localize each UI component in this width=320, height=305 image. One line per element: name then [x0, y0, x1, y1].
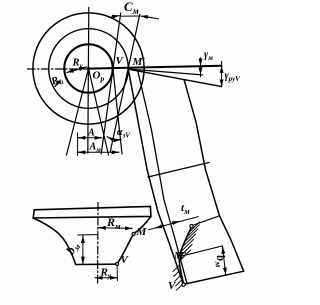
- b_m extension line: [78, 234, 98, 236]
- ray from V down: [113, 68, 122, 154]
- radial ray down-left: [67, 69, 89, 156]
- profile M point: [132, 232, 135, 235]
- gamma_pyV dimension ticks: [221, 61, 223, 87]
- thick horizontal radius line through V and M': [89, 66, 222, 69]
- svg-text:M′: M′: [173, 250, 187, 262]
- svg-text:A: A: [87, 128, 95, 139]
- hatch strokes lower: [173, 265, 184, 291]
- outer circle: [33, 13, 144, 124]
- radial ray down-right: [89, 69, 109, 156]
- A_m dimension: [78, 151, 84, 153]
- tooth path start point: [190, 225, 193, 228]
- radius arrow R_y: [67, 67, 87, 73]
- svg-text:V: V: [121, 254, 130, 266]
- V point on band: [182, 283, 185, 286]
- band strip line: [138, 71, 187, 284]
- V extension line down: [116, 266, 118, 281]
- band transverse line 2: [192, 216, 220, 226]
- band transverse line 1: [148, 163, 209, 178]
- svg-text:tм: tм: [181, 202, 190, 216]
- svg-text:V: V: [116, 55, 125, 67]
- M' tilted line (C_m right line): [110, 14, 140, 152]
- b_m dimension line in band: [223, 246, 226, 275]
- svg-text:Oр: Oр: [93, 70, 105, 84]
- vertical centerline: [88, 8, 89, 154]
- profile view: top bar: [33, 206, 151, 218]
- band left edge: [128, 69, 183, 284]
- C_m dimension: [109, 16, 120, 18]
- svg-text:Rу: Rу: [100, 267, 112, 281]
- M' point on band curve: [178, 255, 181, 258]
- profile bell right side: [117, 216, 151, 264]
- svg-text:γруV: γруV: [225, 71, 242, 84]
- svg-text:M′: M′: [132, 56, 146, 68]
- svg-text:Rи: Rи: [49, 73, 65, 89]
- R_y dimension bottom: [95, 277, 118, 279]
- V tilted line (C_m left line): [101, 13, 121, 154]
- t_m dimension: [148, 217, 198, 230]
- profile V point: [116, 263, 119, 266]
- svg-text:Cм: Cм: [124, 0, 139, 16]
- middle circle R_i: [49, 29, 129, 109]
- A dimension: [77, 133, 79, 156]
- svg-text:αзV: αзV: [117, 127, 131, 140]
- gamma_m fan line 2: [128, 69, 202, 75]
- hatch strokes upper: [180, 222, 200, 261]
- b_m dimension: [82, 235, 84, 264]
- band right edge: [184, 80, 244, 271]
- R_m dimension: [98, 227, 132, 230]
- profile bell left side: [33, 218, 75, 265]
- band top edge / gamma_pyV line: [128, 69, 221, 86]
- radius arrow R_i: [55, 80, 61, 87]
- svg-text:Aм: Aм: [89, 142, 102, 155]
- svg-text:γм: γм: [204, 50, 213, 63]
- profile vertical centerline: [97, 203, 99, 284]
- svg-text:bм: bм: [212, 254, 229, 269]
- band bottom edge: [183, 271, 243, 284]
- b_m reference line from M': [179, 246, 222, 257]
- profile bell bottom: [76, 263, 117, 265]
- center dot O_p: [87, 67, 90, 70]
- alpha_zV angle arc: [107, 137, 121, 141]
- horizontal dash-dot centerline: [28, 68, 89, 70]
- hatched profile curve in band: [179, 228, 191, 283]
- inner circle R_y: [64, 44, 112, 92]
- svg-text:Rу: Rу: [72, 58, 84, 71]
- svg-text:M: M: [136, 226, 148, 238]
- gamma_m dimension ticks: [200, 58, 202, 77]
